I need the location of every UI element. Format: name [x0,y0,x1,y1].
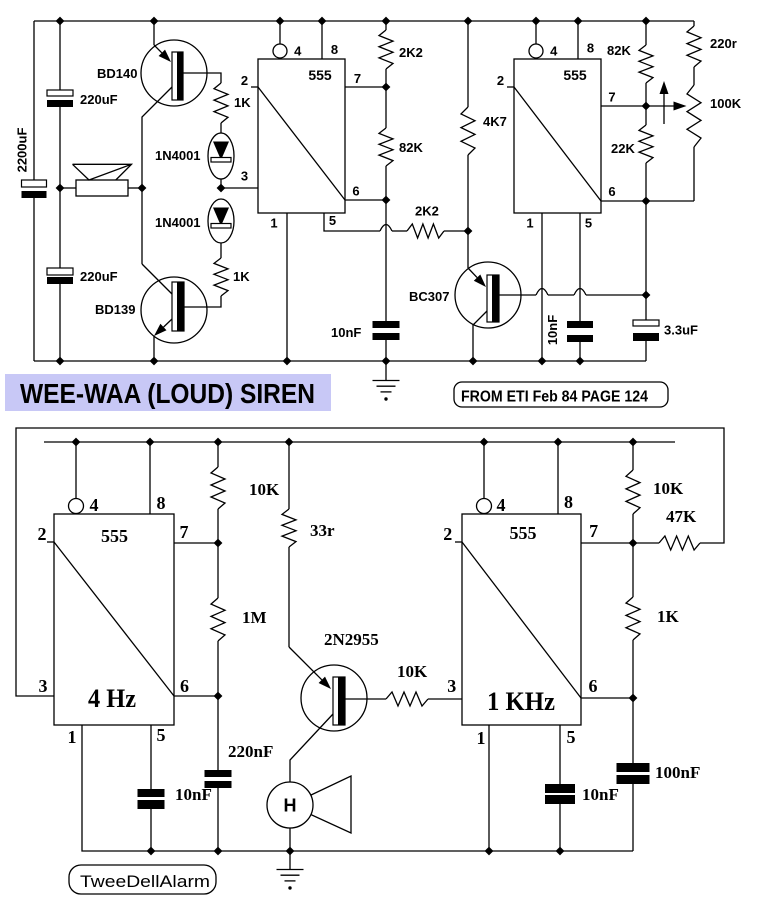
svg-text:4: 4 [294,44,302,59]
wire junction to 3.3uF [645,295,647,320]
wire U3 pin7 [174,542,218,544]
wire U3 pin4 [75,442,77,499]
capacitor C4 3.3uF [633,320,659,326]
wire horn to bottom rail [289,828,291,851]
wire BD139 base column [141,188,143,264]
wire R6 to junction [467,155,469,231]
node R3 rail [382,17,391,26]
wire C9 to bottom rail [559,804,561,851]
svg-text:1 KHz: 1 KHz [487,687,555,716]
node pin7 junction U3 [214,539,223,548]
node rail-BD140 [150,17,159,26]
wire rail to R6 [467,21,469,107]
wire C3 to bottom rail [385,340,387,361]
wire pin6 node down [645,201,647,295]
source box FROM ETI [454,382,668,407]
wire rail corner to R9 [693,21,695,26]
svg-text:2: 2 [241,73,248,88]
wire U2 pin7 [601,105,646,107]
node R7 rail [642,17,651,26]
node pin6 junction U1 [382,196,391,205]
wire speaker left [60,187,76,189]
wire pin6 node to C3 [385,200,387,321]
node R11 rail [214,438,223,447]
svg-text:FROM ETI Feb 84 PAGE 124: FROM ETI Feb 84 PAGE 124 [461,389,648,406]
capacitor C5 10nF [567,321,593,328]
wire R1 to D1 [220,123,222,133]
resistor R2 1K [214,258,228,296]
wire U1 pin7 [345,86,386,88]
node pin6 junction U3 [214,692,223,701]
node pin6 junction U4 [629,694,638,703]
resistor R11 10K [211,467,225,509]
resistor R14 10K horizontal [386,692,428,706]
wire C5 to bottom rail [579,342,581,361]
svg-text:1K: 1K [233,269,250,284]
node speaker right [138,184,147,193]
svg-text:1: 1 [477,728,486,748]
op-amp U4 555 timer [462,514,581,725]
svg-text:10nF: 10nF [545,315,560,345]
capacitor C3 10nF [373,321,400,328]
reset circle U4 pin4 [477,499,492,514]
op-amp U2 555 timer [514,59,601,213]
node C9 bottom [556,847,565,856]
svg-text:220uF: 220uF [80,269,118,284]
wire rail to 220uF C1 [59,21,61,90]
svg-text:47K: 47K [666,507,697,526]
svg-text:555: 555 [308,67,332,83]
diode D1 1N4001 [208,133,234,179]
svg-text:6: 6 [180,676,189,696]
wire U3 pin1 down [82,725,633,851]
svg-text:10K: 10K [653,479,684,498]
wire D1 to node3 [220,179,222,188]
svg-text:10K: 10K [397,662,428,681]
svg-text:H: H [284,796,297,816]
resistor R6 4K7 [461,107,475,155]
wire U3 pin6 [174,695,218,697]
wire outer loop [16,428,724,696]
wire U2 pin4 [535,21,537,44]
op-amp U1 555 timer [258,59,345,213]
wire U3 pin8 [149,442,151,514]
svg-text:6: 6 [352,184,359,199]
node U1 pin4 rail [276,17,285,26]
svg-text:10K: 10K [249,480,280,499]
resistor R5 2K2 horizontal [407,224,444,238]
wire hop over pin1 column [536,289,548,296]
node collector-3.3uF junction [642,291,651,300]
svg-text:82K: 82K [607,43,631,58]
wire R11 to pin7 node [217,509,219,543]
reset circle U2 pin4 [529,44,543,58]
svg-text:2K2: 2K2 [415,204,439,219]
capacitor 220uF C1 [47,90,73,96]
transistor Q4 2N2955 [301,665,367,731]
wire U4 pin7 [581,542,633,544]
svg-text:10nF: 10nF [331,325,361,340]
svg-text:4: 4 [550,44,558,59]
ground symbol bottom [277,869,304,871]
svg-text:220nF: 220nF [228,742,273,761]
svg-text:TweeDellAlarm: TweeDellAlarm [80,872,210,891]
wire Q3 emitter [473,311,487,361]
svg-text:2: 2 [443,524,452,544]
node U2 pin8 rail [574,17,583,26]
node U4 pin8 rail [554,438,563,447]
svg-text:7: 7 [589,521,598,541]
wire rail to R13 [288,442,290,509]
wire hop to R5 [392,230,407,232]
resistor R10 100K pot [687,85,701,147]
transistor Q1 BD140 [141,40,207,106]
node U1 pin8 rail [318,17,327,26]
node Q3 emitter bottom [469,357,478,366]
wire U2 pin6 [601,200,694,202]
resistor R17 1K [626,597,640,640]
node C6 bottom [214,847,223,856]
node U3 pin8 rail [146,438,155,447]
svg-text:7: 7 [180,522,189,542]
resistor R3 2K2 [379,30,393,69]
capacitor 220uF C2 [47,268,73,275]
svg-text:555: 555 [510,523,537,543]
node U1 pin1 bottom [283,357,292,366]
transistor Q3 BC307 [455,262,521,328]
wire top supply rail [34,20,694,22]
resistor R7 82K [639,45,653,83]
resistor R12 1M [211,598,225,641]
svg-text:BC307: BC307 [409,289,449,304]
node pin7 junction U2 [642,102,651,111]
svg-text:100nF: 100nF [655,763,700,782]
node ground junction [382,357,391,366]
resistor R4 82K [379,128,393,166]
wire R12 to pin6 node [217,641,219,696]
reset circle U3 pin4 [69,499,84,514]
wire BD139 emitter to rail [153,336,155,361]
wire pin6 node to C8 [632,698,634,763]
svg-text:7: 7 [354,71,361,86]
wire BD140 collector [183,73,221,83]
wire speaker right [128,187,142,189]
wire rail to R11 [217,442,219,467]
wire R2 to BD139 collector [184,296,221,307]
wire pin7 node to R8 [645,106,647,125]
svg-text:8: 8 [587,41,594,56]
reset circle U1 pin4 [273,44,287,58]
wire pin3 to 555 U1 [221,187,258,189]
transistor Q2 BD139 [141,277,207,343]
wire U2 pin1 to rail [541,213,543,361]
svg-text:8: 8 [564,492,573,512]
svg-text:4: 4 [90,495,99,515]
capacitor C8 100nF [617,763,650,772]
node speaker left [56,184,65,193]
node horn bottom [286,847,295,856]
svg-text:33r: 33r [310,521,335,540]
svg-text:8: 8 [157,493,166,513]
wire U1 pin6 [345,199,386,201]
wire pin7 node to R16 [633,542,659,544]
svg-text:1M: 1M [242,608,267,627]
title banner WEE-WAA (LOUD) SIREN [5,374,331,411]
wire U1 pin4 [279,21,281,44]
node rail-220uF [56,17,65,26]
node U4 pin1 bottom [485,847,494,856]
svg-text:8: 8 [331,42,338,57]
svg-text:1: 1 [68,727,77,747]
wire R14 to U4 pin3 [428,698,462,700]
wire rail to R15 [632,442,634,470]
title box TweeDellAlarm [69,865,216,894]
node C7 bottom [147,847,156,856]
wire pin7 node to R12 [217,543,219,598]
node pin7 junction U1 [382,83,391,92]
wire 3.3uF to bottom rail [645,341,647,361]
svg-text:3.3uF: 3.3uF [664,323,698,338]
wiper arrow vertical [663,94,665,124]
svg-text:1N4001: 1N4001 [155,148,201,163]
wire Q3 collector segment 2 [548,294,574,296]
node pin3 junction [217,184,226,193]
wire pin7 node to R17 [632,543,634,597]
wire ground stem bottom [289,851,291,870]
wire Q4 emitter [290,714,333,782]
node R5-R6 junction [464,227,473,236]
node U2 pin1 bottom [538,357,547,366]
svg-text:4K7: 4K7 [483,114,507,129]
svg-text:555: 555 [101,526,128,546]
op-amp U3 555 timer [54,514,174,725]
wire left branch down to 2200uF [33,21,35,180]
svg-text:1K: 1K [657,607,680,626]
wiper arrow horizontal [646,105,674,107]
wire Q3 collector segment 3 [586,294,646,296]
node pin6 junction U2 [642,197,651,206]
wire U4 pin8 [557,442,559,514]
wire 220uF C2 column [59,188,61,268]
svg-text:5: 5 [585,216,592,231]
svg-text:WEE-WAA (LOUD) SIREN: WEE-WAA (LOUD) SIREN [20,378,315,409]
svg-text:220r: 220r [710,36,737,51]
svg-text:5: 5 [567,727,576,747]
wire U3 pin5 to C7 [150,725,152,789]
wire ground stem [385,361,387,381]
capacitor 2200uF [22,180,47,187]
svg-text:2200uF: 2200uF [15,128,30,173]
svg-text:3: 3 [241,168,248,183]
node R6 rail [464,17,473,26]
wire hop over C3 column [380,225,392,232]
wire 220uF C1 to speaker node [59,107,61,188]
svg-text:BD139: BD139 [95,302,135,317]
wire U2 pin8 [577,21,579,59]
wire BD140 base diagonal [142,87,172,188]
resistor R16 47K horizontal [659,536,700,550]
resistor R13 33r [282,509,296,547]
node R13 rail [285,438,294,447]
resistor R15 10K [626,470,640,514]
wire top bottom rail [34,360,646,362]
svg-text:100K: 100K [710,96,742,111]
wire rail to R3 [385,21,387,30]
speaker LS1 [76,180,128,196]
svg-text:4: 4 [497,495,506,515]
wire U1 pin8 [321,21,323,59]
node BD139 emitter [150,357,159,366]
svg-text:1K: 1K [234,95,251,110]
wire R10 to pin6 wire [693,147,695,201]
resistor R8 22K [639,125,653,163]
wire U4 pin6 [581,697,633,699]
node 220uF C2 bottom [56,357,65,366]
wire R4 to pin6 node [385,166,387,200]
wire hop over pin5 column [574,289,586,296]
svg-text:2: 2 [497,73,504,88]
ground symbol top [373,380,400,382]
node C5 bottom [576,357,585,366]
wire U4 pin4 [483,442,485,499]
wire R5 to 4K7 node [444,230,468,232]
wire D2 to R2 [220,243,222,258]
wire pin7 node to R4 [385,87,387,128]
svg-text:3: 3 [39,676,48,696]
wire pin6 node to C6 [217,696,219,770]
svg-text:5: 5 [329,213,336,228]
capacitor C7 10nF [138,789,165,797]
node U3 pin4 rail [72,438,81,447]
wire U4 pin1 down [488,725,490,851]
svg-text:10nF: 10nF [582,785,619,804]
capacitor C6 220nF [205,770,232,777]
node pin7 junction U4 [629,539,638,548]
wire R15 to pin7 node [632,514,634,543]
svg-text:1: 1 [270,216,277,231]
wire U1 pin5 to R5 [324,213,380,231]
svg-text:2K2: 2K2 [399,45,423,60]
wire U4 pin5 to C9 [559,725,561,784]
svg-text:220uF: 220uF [80,92,118,107]
wire Q3 collector segment 1 [499,294,536,296]
svg-text:22K: 22K [611,141,635,156]
wire C7 to bottom rail [150,809,152,851]
wire R8 to pin6 node [645,163,647,201]
svg-text:1: 1 [526,216,533,231]
node R15 rail [629,438,638,447]
svg-text:555: 555 [563,67,587,83]
wire 2200uF to bottom rail [33,198,35,361]
node U2 pin4 rail [532,17,541,26]
wire Q3 base [467,231,469,268]
svg-text:4 Hz: 4 Hz [88,684,136,713]
wire R9 to R10 [693,67,695,85]
resistor R1 1K [214,83,228,123]
svg-text:3: 3 [447,676,456,696]
wire bottom supply rail [44,441,675,443]
wire R17 to pin6 node [632,640,634,698]
resistor R9 220r [687,26,701,67]
svg-text:2N2955: 2N2955 [324,630,379,649]
wire Q4 collector [345,698,386,700]
svg-text:2: 2 [38,524,47,544]
wire U1 pin1 to rail [286,213,288,361]
wire R3 to pin7 node [385,69,387,87]
svg-text:5: 5 [157,725,166,745]
wire R13 to Q4 base [288,547,290,647]
diode D2 1N4001 [208,199,234,243]
svg-text:BD140: BD140 [97,66,137,81]
svg-text:6: 6 [608,184,615,199]
svg-text:82K: 82K [399,140,423,155]
node U4 pin4 rail [480,438,489,447]
svg-text:1N4001: 1N4001 [155,215,201,230]
svg-text:7: 7 [608,90,615,105]
wire U2 pin5 to C5 [579,213,581,321]
svg-text:10nF: 10nF [175,785,212,804]
wire rail to R7 [645,21,647,45]
wire 220uF C2 to bottom rail [59,284,61,361]
wire R7 to pin7 node [645,83,647,106]
capacitor C9 10nF [545,784,575,793]
wire C8 to bottom rail [632,784,634,851]
svg-text:6: 6 [589,676,598,696]
horn speaker H [290,776,351,833]
wire rail to BD140 emitter [153,21,155,45]
wire C6 to bottom rail [217,788,219,851]
